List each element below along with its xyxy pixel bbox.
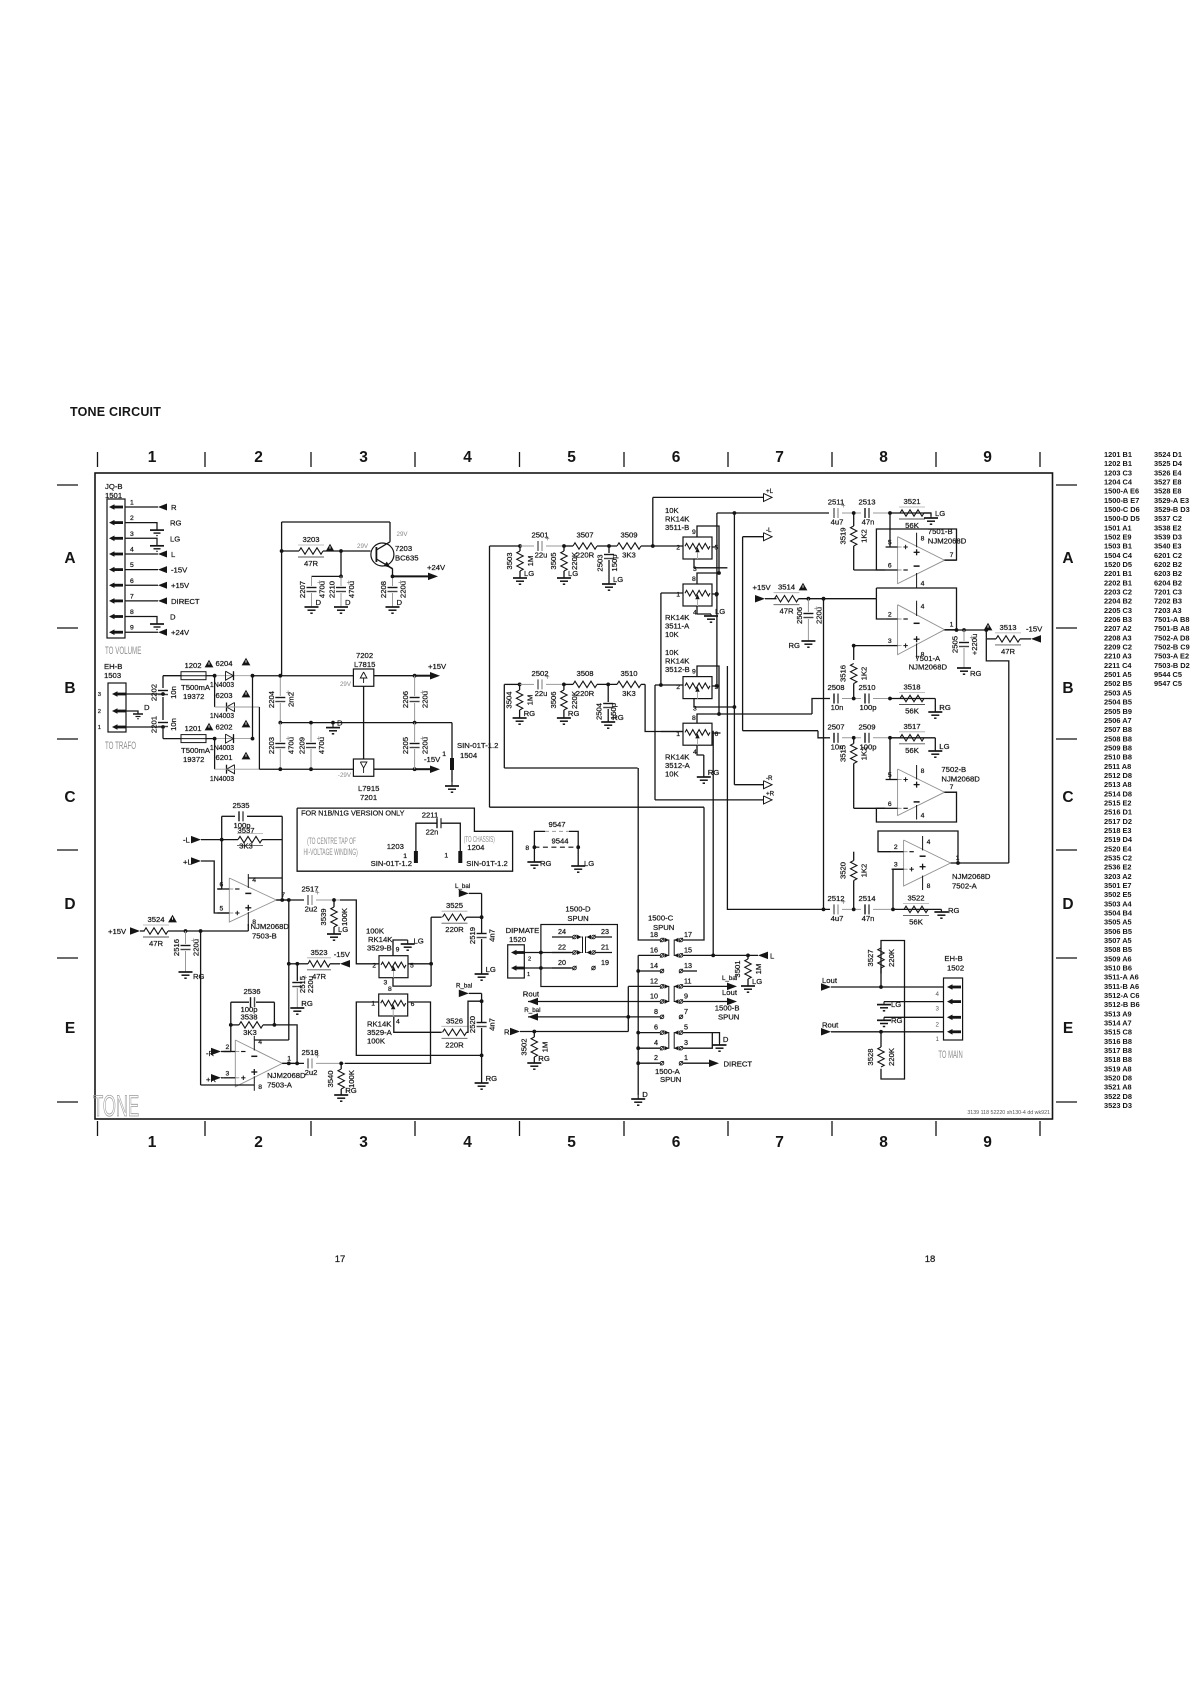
svg-text:Rout: Rout <box>523 990 540 999</box>
svg-text:6204 B2: 6204 B2 <box>1154 578 1182 587</box>
svg-text:RG: RG <box>891 1016 903 1025</box>
svg-text:3507: 3507 <box>576 531 593 540</box>
svg-text:2512: 2512 <box>827 894 844 903</box>
svg-text:+24V: +24V <box>427 563 446 572</box>
svg-text:9547 C5: 9547 C5 <box>1154 679 1182 688</box>
svg-text:RG: RG <box>788 641 800 650</box>
svg-text:3: 3 <box>888 638 892 645</box>
svg-text:+15V: +15V <box>108 927 127 936</box>
svg-text:4: 4 <box>130 547 134 554</box>
svg-text:2513 A8: 2513 A8 <box>1104 780 1132 789</box>
svg-text:B: B <box>64 680 75 697</box>
svg-text:47R: 47R <box>779 607 794 616</box>
svg-text:7502-A D8: 7502-A D8 <box>1154 633 1189 642</box>
svg-text:2209 C2: 2209 C2 <box>1104 643 1132 652</box>
svg-text:2u2: 2u2 <box>305 905 318 914</box>
svg-text:470u: 470u <box>317 737 326 754</box>
svg-text:3537: 3537 <box>237 826 254 835</box>
svg-text:6: 6 <box>888 801 892 808</box>
svg-text:SIN-01T-1.2: SIN-01T-1.2 <box>466 859 507 868</box>
svg-text:RG: RG <box>486 1074 498 1083</box>
svg-text:9544 C5: 9544 C5 <box>1154 670 1182 679</box>
svg-text:7501-A B8: 7501-A B8 <box>1154 615 1189 624</box>
svg-text:2513: 2513 <box>858 498 875 507</box>
svg-text:8: 8 <box>388 986 392 993</box>
svg-text:-15V: -15V <box>424 755 441 764</box>
svg-text:3515 C8: 3515 C8 <box>1104 1028 1132 1037</box>
svg-text:10K: 10K <box>665 630 680 639</box>
svg-text:2516 D1: 2516 D1 <box>1104 808 1132 817</box>
svg-text:6202 B2: 6202 B2 <box>1154 560 1182 569</box>
svg-text:47n: 47n <box>862 914 875 923</box>
svg-text:3520: 3520 <box>839 862 848 879</box>
svg-text:3537 C2: 3537 C2 <box>1154 514 1182 523</box>
svg-text:RG: RG <box>540 859 552 868</box>
svg-text:2: 2 <box>654 1053 658 1062</box>
svg-text:3517 B8: 3517 B8 <box>1104 1046 1132 1055</box>
svg-text:-L: -L <box>183 836 191 845</box>
svg-text:L7815: L7815 <box>354 660 375 669</box>
svg-text:L_bal: L_bal <box>455 883 470 890</box>
svg-text:2518 E3: 2518 E3 <box>1104 826 1132 835</box>
svg-text:3506 B5: 3506 B5 <box>1104 927 1132 936</box>
svg-text:2: 2 <box>254 449 263 466</box>
svg-text:12: 12 <box>650 976 658 985</box>
svg-text:22n: 22n <box>426 828 439 837</box>
svg-text:3509 A6: 3509 A6 <box>1104 954 1132 963</box>
svg-text:7: 7 <box>775 1134 784 1151</box>
svg-text:2506: 2506 <box>795 607 804 624</box>
svg-text:8: 8 <box>927 883 931 890</box>
svg-text:TONE: TONE <box>93 1090 139 1123</box>
svg-text:7502-B: 7502-B <box>941 765 966 774</box>
svg-text:1N4003: 1N4003 <box>210 713 234 720</box>
svg-text:220K: 220K <box>887 948 896 967</box>
svg-text:L: L <box>770 952 775 961</box>
svg-text:1503: 1503 <box>104 671 121 680</box>
svg-text:1203: 1203 <box>387 842 404 851</box>
svg-text:1: 1 <box>444 853 448 860</box>
svg-text:3519: 3519 <box>839 527 848 544</box>
svg-text:19372: 19372 <box>183 692 204 701</box>
svg-text:1500-B: 1500-B <box>715 1004 740 1013</box>
svg-text:2504: 2504 <box>595 702 604 720</box>
svg-text:2211 C4: 2211 C4 <box>1104 661 1132 670</box>
svg-text:4: 4 <box>396 1019 400 1026</box>
svg-text:7: 7 <box>950 552 954 559</box>
svg-text:D: D <box>337 719 343 728</box>
svg-text:1504 C4: 1504 C4 <box>1104 551 1133 560</box>
svg-text:3526 E4: 3526 E4 <box>1154 468 1182 477</box>
svg-text:7: 7 <box>130 593 134 600</box>
svg-text:T500mA: T500mA <box>181 683 211 692</box>
svg-text:6203 B2: 6203 B2 <box>1154 569 1182 578</box>
svg-text:3523: 3523 <box>310 948 327 957</box>
svg-text:1201: 1201 <box>184 724 201 733</box>
svg-text:3515: 3515 <box>839 745 848 762</box>
svg-text:3538: 3538 <box>240 1013 257 1022</box>
svg-text:8: 8 <box>921 536 925 543</box>
svg-text:+L: +L <box>766 488 774 495</box>
svg-text:2536: 2536 <box>243 987 260 996</box>
svg-text:3521 A8: 3521 A8 <box>1104 1083 1132 1092</box>
svg-text:R_bal: R_bal <box>524 1007 540 1014</box>
svg-text:LG: LG <box>935 509 945 518</box>
svg-text:8: 8 <box>692 715 696 722</box>
svg-text:2202 B1: 2202 B1 <box>1104 578 1132 587</box>
svg-text:3509: 3509 <box>620 531 637 540</box>
svg-text:2: 2 <box>226 1044 230 1051</box>
svg-text:6: 6 <box>672 1134 681 1151</box>
svg-text:3525: 3525 <box>446 901 463 910</box>
svg-text:22u: 22u <box>535 689 548 698</box>
svg-text:220R: 220R <box>445 1040 464 1049</box>
svg-text:3K3: 3K3 <box>622 551 636 560</box>
svg-text:2501 A5: 2501 A5 <box>1104 670 1132 679</box>
svg-text:3507 A5: 3507 A5 <box>1104 936 1132 945</box>
svg-text:3K3: 3K3 <box>243 1028 257 1037</box>
svg-text:2: 2 <box>888 612 892 619</box>
svg-text:2519 D4: 2519 D4 <box>1104 835 1133 844</box>
svg-text:7: 7 <box>281 892 285 899</box>
svg-text:10: 10 <box>650 992 658 1001</box>
svg-text:6202: 6202 <box>215 723 232 732</box>
svg-text:3529-B D3: 3529-B D3 <box>1154 505 1190 514</box>
svg-text:6201: 6201 <box>215 753 232 762</box>
svg-text:2514: 2514 <box>858 894 876 903</box>
svg-text:3508 B5: 3508 B5 <box>1104 945 1132 954</box>
svg-text:SPUN: SPUN <box>567 914 588 923</box>
svg-text:E: E <box>65 1020 75 1037</box>
svg-text:29V: 29V <box>357 543 369 550</box>
svg-text:3526: 3526 <box>446 1016 463 1025</box>
svg-text:10K: 10K <box>665 770 680 779</box>
svg-text:7201 C3: 7201 C3 <box>1154 588 1182 597</box>
svg-text:1503 B1: 1503 B1 <box>1104 542 1132 551</box>
svg-text:Rout: Rout <box>822 1021 839 1030</box>
svg-text:3512-A C6: 3512-A C6 <box>1104 991 1139 1000</box>
svg-text:1M: 1M <box>526 695 535 706</box>
svg-text:1N4003: 1N4003 <box>210 745 234 752</box>
svg-text:5: 5 <box>220 906 224 913</box>
svg-text:2503 A5: 2503 A5 <box>1104 688 1132 697</box>
svg-text:220R: 220R <box>576 551 595 560</box>
svg-text:EH-B: EH-B <box>104 662 122 671</box>
svg-text:4n7: 4n7 <box>488 929 497 942</box>
svg-text:1500-D D5: 1500-D D5 <box>1104 514 1140 523</box>
svg-text:29V: 29V <box>340 681 352 688</box>
svg-text:4: 4 <box>463 449 472 466</box>
svg-text:3: 3 <box>359 449 368 466</box>
svg-text:1: 1 <box>98 725 101 731</box>
svg-text:7201: 7201 <box>360 793 377 802</box>
svg-text:+R: +R <box>766 791 775 798</box>
svg-text:6: 6 <box>715 592 719 599</box>
svg-text:3511-B A6: 3511-B A6 <box>1104 982 1139 991</box>
svg-text:9544: 9544 <box>551 837 569 846</box>
svg-text:1202: 1202 <box>184 661 201 670</box>
svg-text:8: 8 <box>692 576 696 583</box>
svg-text:C: C <box>1062 789 1073 806</box>
svg-text:220u: 220u <box>306 976 315 993</box>
svg-text:220u: 220u <box>192 939 201 956</box>
svg-text:RG: RG <box>568 709 580 718</box>
svg-text:RG: RG <box>345 1086 357 1095</box>
svg-text:2514 D8: 2514 D8 <box>1104 789 1132 798</box>
svg-text:8: 8 <box>879 1134 888 1151</box>
svg-text:2207: 2207 <box>298 581 307 598</box>
svg-text:2: 2 <box>676 545 680 552</box>
svg-text:SIN-01T-1.2: SIN-01T-1.2 <box>371 859 412 868</box>
svg-text:R: R <box>504 1028 510 1037</box>
svg-text:7202: 7202 <box>356 651 373 660</box>
svg-text:2203: 2203 <box>267 737 276 754</box>
svg-text:220K: 220K <box>887 1047 896 1066</box>
svg-text:3523 D3: 3523 D3 <box>1104 1101 1132 1110</box>
svg-text:2204: 2204 <box>267 690 276 708</box>
svg-text:3511-A A6: 3511-A A6 <box>1104 973 1139 982</box>
svg-text:RG: RG <box>301 999 313 1008</box>
svg-text:3: 3 <box>936 1006 940 1013</box>
svg-text:1: 1 <box>148 449 157 466</box>
svg-text:3506: 3506 <box>549 691 558 708</box>
svg-text:2512 D8: 2512 D8 <box>1104 771 1132 780</box>
svg-text:1204: 1204 <box>467 843 485 852</box>
svg-text:3501 E7: 3501 E7 <box>1104 881 1132 890</box>
svg-text:7502-A: 7502-A <box>952 882 978 891</box>
svg-text:9: 9 <box>692 669 696 676</box>
svg-text:6203: 6203 <box>215 691 232 700</box>
svg-text:4u7: 4u7 <box>831 518 844 527</box>
svg-text:56K: 56K <box>905 746 920 755</box>
svg-text:2501: 2501 <box>531 531 548 540</box>
svg-text:B: B <box>1062 680 1073 697</box>
svg-text:7503-B: 7503-B <box>252 932 277 941</box>
svg-text:D: D <box>345 598 351 607</box>
svg-text:2502: 2502 <box>531 669 548 678</box>
svg-text:3511-B: 3511-B <box>665 523 689 532</box>
svg-text:E: E <box>1063 1020 1073 1037</box>
svg-text:2516: 2516 <box>172 939 181 956</box>
svg-text:RG: RG <box>538 1054 550 1063</box>
svg-text:8: 8 <box>879 449 888 466</box>
svg-text:3512-B: 3512-B <box>665 665 690 674</box>
svg-text:10n: 10n <box>831 703 844 712</box>
svg-text:7203 A3: 7203 A3 <box>1154 606 1182 615</box>
svg-text:2510: 2510 <box>858 683 875 692</box>
svg-text:5: 5 <box>684 1023 688 1032</box>
svg-text:3522: 3522 <box>907 893 924 902</box>
svg-text:5: 5 <box>567 1134 576 1151</box>
svg-text:4: 4 <box>463 1134 472 1151</box>
svg-text:2: 2 <box>254 1134 263 1151</box>
svg-text:7: 7 <box>950 784 954 791</box>
svg-text:RG: RG <box>612 713 624 722</box>
svg-text:2535: 2535 <box>232 801 249 810</box>
svg-text:D: D <box>642 1090 648 1099</box>
svg-text:1: 1 <box>950 622 954 629</box>
svg-text:2518: 2518 <box>301 1048 318 1057</box>
svg-text:3139 118 52220 sh130-4 dd wk9: 3139 118 52220 sh130-4 dd wk921 <box>967 1110 1050 1116</box>
svg-text:1K2: 1K2 <box>860 864 869 878</box>
svg-text:3K3: 3K3 <box>239 842 253 851</box>
svg-text:HI-VOLTAGE WINDING): HI-VOLTAGE WINDING) <box>303 846 357 857</box>
svg-text:3540 E3: 3540 E3 <box>1154 542 1182 551</box>
svg-text:3529-B: 3529-B <box>367 944 392 953</box>
svg-text:220R: 220R <box>445 925 464 934</box>
svg-text:1K2: 1K2 <box>860 667 869 681</box>
svg-text:2: 2 <box>894 844 898 851</box>
svg-text:3518: 3518 <box>903 683 920 692</box>
svg-text:2505: 2505 <box>951 636 960 653</box>
svg-text:7503-A: 7503-A <box>267 1081 293 1090</box>
svg-text:100K: 100K <box>367 1037 386 1046</box>
svg-text:3K3: 3K3 <box>622 689 636 698</box>
svg-text:8: 8 <box>258 1084 262 1091</box>
svg-text:4: 4 <box>921 581 925 588</box>
svg-text:L7915: L7915 <box>358 784 379 793</box>
svg-text:3520 D8: 3520 D8 <box>1104 1074 1132 1083</box>
svg-text:20: 20 <box>558 958 566 967</box>
svg-text:LG: LG <box>414 937 424 946</box>
svg-text:DIPMATE: DIPMATE <box>506 926 540 935</box>
svg-text:1520: 1520 <box>509 935 526 944</box>
svg-text:L_bal: L_bal <box>722 975 737 982</box>
svg-text:1500-C D6: 1500-C D6 <box>1104 505 1140 514</box>
svg-text:220u: 220u <box>814 607 823 624</box>
svg-text:2204 B2: 2204 B2 <box>1104 597 1132 606</box>
svg-text:1K2: 1K2 <box>860 529 869 543</box>
svg-text:8: 8 <box>921 768 925 775</box>
svg-text:2507 B8: 2507 B8 <box>1104 725 1132 734</box>
svg-text:3539 D3: 3539 D3 <box>1154 533 1182 542</box>
svg-text:19: 19 <box>601 958 609 967</box>
svg-text:3503 A4: 3503 A4 <box>1104 899 1133 908</box>
svg-text:2515 E2: 2515 E2 <box>1104 799 1132 808</box>
svg-text:2535 C2: 2535 C2 <box>1104 854 1132 863</box>
svg-text:+15V: +15V <box>171 581 190 590</box>
svg-text:3503: 3503 <box>505 552 514 569</box>
svg-text:+220u: +220u <box>970 634 979 656</box>
svg-text:3: 3 <box>359 1134 368 1151</box>
svg-text:470u: 470u <box>286 737 295 754</box>
svg-text:9: 9 <box>692 529 696 536</box>
svg-text:RG: RG <box>170 519 182 528</box>
svg-text:D: D <box>397 598 403 607</box>
svg-text:2210 A3: 2210 A3 <box>1104 652 1132 661</box>
svg-text:13: 13 <box>684 961 692 970</box>
svg-text:3: 3 <box>98 692 101 698</box>
svg-text:1204 C4: 1204 C4 <box>1104 478 1133 487</box>
svg-text:+15V: +15V <box>753 583 772 592</box>
svg-text:8: 8 <box>654 1007 658 1016</box>
svg-text:19372: 19372 <box>183 755 204 764</box>
svg-text:BC635: BC635 <box>395 554 419 563</box>
svg-text:2203 C2: 2203 C2 <box>1104 588 1132 597</box>
svg-text:1: 1 <box>684 1053 688 1062</box>
svg-text:2202: 2202 <box>150 684 159 701</box>
svg-text:9: 9 <box>983 449 992 466</box>
svg-text:3: 3 <box>894 862 898 869</box>
svg-text:6: 6 <box>654 1023 658 1032</box>
svg-text:-R: -R <box>766 775 773 782</box>
svg-text:4: 4 <box>927 839 931 846</box>
svg-text:2520 E4: 2520 E4 <box>1104 844 1132 853</box>
svg-text:RG: RG <box>524 709 536 718</box>
svg-text:LG: LG <box>524 569 534 578</box>
svg-text:17: 17 <box>335 1254 346 1265</box>
svg-text:NJM2068D: NJM2068D <box>251 922 290 931</box>
svg-text:NJM2068D: NJM2068D <box>941 775 980 784</box>
svg-text:3527: 3527 <box>866 949 875 966</box>
svg-text:3539: 3539 <box>319 908 328 925</box>
svg-text:2509 B8: 2509 B8 <box>1104 743 1132 752</box>
svg-text:LG: LG <box>338 925 348 934</box>
svg-text:47R: 47R <box>149 939 164 948</box>
svg-text:7503-B D2: 7503-B D2 <box>1154 661 1190 670</box>
svg-text:1500-A E6: 1500-A E6 <box>1104 487 1139 496</box>
svg-text:2502 B5: 2502 B5 <box>1104 679 1132 688</box>
svg-text:3521: 3521 <box>903 497 920 506</box>
svg-text:11: 11 <box>684 976 691 985</box>
svg-text:23: 23 <box>601 927 609 936</box>
svg-text:1502 E9: 1502 E9 <box>1104 533 1132 542</box>
svg-text:3525 D4: 3525 D4 <box>1154 459 1183 468</box>
svg-text:8: 8 <box>130 609 134 616</box>
svg-text:3524: 3524 <box>147 915 165 924</box>
svg-text:3510: 3510 <box>620 669 637 678</box>
svg-text:2519: 2519 <box>468 927 477 944</box>
svg-text:1K2: 1K2 <box>860 747 869 761</box>
svg-text:2505 B9: 2505 B9 <box>1104 707 1132 716</box>
svg-text:2208 A3: 2208 A3 <box>1104 633 1132 642</box>
svg-text:2506 A7: 2506 A7 <box>1104 716 1132 725</box>
svg-text:6: 6 <box>672 449 681 466</box>
svg-text:47n: 47n <box>862 518 875 527</box>
svg-text:D: D <box>64 896 75 913</box>
svg-text:6: 6 <box>715 731 719 738</box>
svg-text:D: D <box>723 1035 729 1044</box>
svg-text:9: 9 <box>396 947 400 954</box>
svg-text:2504 B5: 2504 B5 <box>1104 698 1132 707</box>
svg-text:SIN-01T-1.2: SIN-01T-1.2 <box>457 741 498 750</box>
svg-text:220u: 220u <box>421 691 430 708</box>
svg-text:16: 16 <box>650 945 658 954</box>
svg-text:-15V: -15V <box>334 950 351 959</box>
svg-text:100p: 100p <box>859 703 876 712</box>
svg-text:3524 D1: 3524 D1 <box>1154 450 1182 459</box>
svg-text:2511 A8: 2511 A8 <box>1104 762 1131 771</box>
svg-text:2210: 2210 <box>328 581 337 598</box>
svg-text:3: 3 <box>226 1070 230 1077</box>
svg-text:1: 1 <box>287 1055 291 1062</box>
svg-text:3203: 3203 <box>302 535 319 544</box>
svg-text:LG: LG <box>939 742 949 751</box>
svg-text:1: 1 <box>148 1134 157 1151</box>
svg-text:2511: 2511 <box>828 498 845 507</box>
svg-text:L: L <box>171 550 176 559</box>
svg-text:4: 4 <box>921 813 925 820</box>
svg-text:2u2: 2u2 <box>305 1068 318 1077</box>
svg-text:LG: LG <box>715 607 725 616</box>
svg-text:2509: 2509 <box>858 722 875 731</box>
svg-text:3505 A5: 3505 A5 <box>1104 918 1132 927</box>
svg-text:3502: 3502 <box>519 1038 528 1055</box>
svg-text:9: 9 <box>130 625 134 632</box>
svg-text:-29V: -29V <box>338 772 352 779</box>
svg-text:470u: 470u <box>347 581 356 598</box>
svg-text:1501 A1: 1501 A1 <box>1104 523 1132 532</box>
